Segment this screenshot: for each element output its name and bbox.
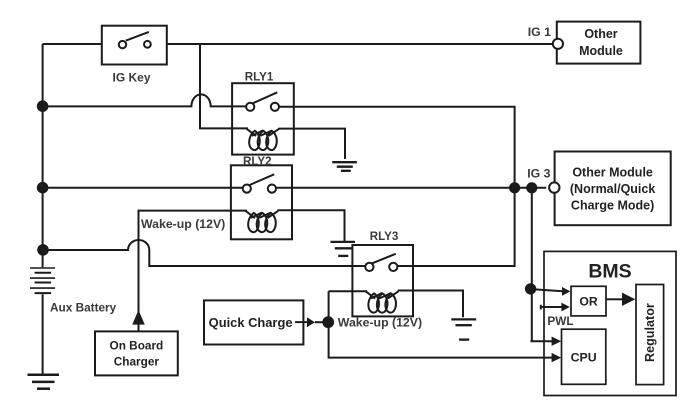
box Regulator — [636, 285, 664, 385]
battery Aux Battery — [30, 268, 55, 293]
arrow up — [132, 310, 145, 325]
node IG 3 — [549, 182, 559, 192]
box Other Module — [557, 22, 641, 64]
ground — [331, 242, 356, 256]
relay RLY1 coil — [247, 129, 280, 150]
wire — [329, 291, 553, 357]
relay RLY2 box — [231, 165, 292, 239]
relay RLY1 contacts — [246, 92, 279, 111]
junction — [38, 183, 48, 193]
junction — [38, 245, 48, 255]
wire — [43, 43, 102, 45]
ground — [451, 319, 476, 339]
box CPU — [562, 329, 606, 384]
svg-text:RLY3: RLY3 — [370, 230, 399, 243]
wire — [606, 298, 622, 300]
node IG 1 — [553, 39, 563, 49]
wire — [315, 321, 324, 323]
relay RLY3 coil — [366, 291, 399, 312]
wire — [279, 107, 515, 188]
ground — [332, 162, 357, 171]
junction — [527, 183, 536, 192]
arrow into OR upper — [562, 287, 570, 296]
relay RLY3 box — [352, 245, 413, 316]
box BMS — [544, 251, 676, 395]
box OR — [571, 286, 606, 316]
wire — [295, 321, 308, 323]
svg-text:Charger: Charger — [114, 354, 160, 368]
wire — [167, 43, 553, 45]
wire — [278, 210, 345, 241]
svg-text:CPU: CPU — [571, 351, 597, 365]
junction — [526, 284, 535, 293]
junction — [510, 183, 519, 192]
wire — [43, 240, 366, 266]
junction — [323, 317, 333, 327]
wire — [42, 294, 44, 375]
ground — [28, 375, 60, 389]
wire — [42, 44, 44, 267]
relay RLY3 contacts — [365, 254, 397, 271]
svg-text:IG 1: IG 1 — [528, 25, 551, 39]
wire — [398, 291, 463, 318]
svg-text:Other Module: Other Module — [572, 165, 653, 179]
arrow into CPU upper — [552, 337, 562, 346]
box Other Module (Normal/Quick Charge Mode) — [555, 152, 671, 226]
wire — [43, 94, 247, 106]
wire — [279, 129, 346, 159]
svg-text:RLY1: RLY1 — [245, 71, 274, 84]
wire — [531, 188, 533, 289]
wire — [329, 290, 368, 292]
junction — [38, 101, 48, 111]
relay RLY1 box — [232, 83, 294, 154]
svg-text:Wake-up (12V): Wake-up (12V) — [338, 315, 422, 329]
svg-text:RLY2: RLY2 — [243, 155, 272, 168]
svg-text:Module: Module — [579, 44, 623, 58]
box On Board Charger — [95, 331, 178, 375]
wire — [276, 187, 547, 189]
svg-text:Wake-up (12V): Wake-up (12V) — [141, 217, 225, 231]
arrow right — [307, 317, 315, 327]
wire — [533, 289, 563, 291]
svg-text:PWL: PWL — [547, 314, 573, 328]
switch IG Key contacts — [119, 32, 151, 48]
arrow into Regulator — [622, 293, 635, 306]
relay RLY2 contacts — [243, 174, 276, 192]
arrow into CPU lower — [552, 353, 562, 362]
arrow into OR lower — [561, 303, 569, 312]
wire — [200, 44, 248, 128]
box Quick Charge — [204, 300, 303, 344]
svg-text:BMS: BMS — [588, 261, 631, 283]
svg-text:IG 3: IG 3 — [527, 167, 550, 181]
svg-text:(Normal/Quick: (Normal/Quick — [570, 182, 655, 196]
wire — [397, 188, 514, 266]
svg-text:OR: OR — [579, 295, 597, 309]
wire — [530, 289, 552, 341]
wire — [139, 211, 248, 332]
svg-text:IG Key: IG Key — [112, 71, 150, 85]
svg-text:Aux Battery: Aux Battery — [50, 300, 117, 314]
svg-text:Charge Mode): Charge Mode) — [571, 198, 654, 212]
svg-text:Other: Other — [584, 27, 617, 41]
svg-text:On Board: On Board — [110, 339, 164, 353]
wire — [43, 187, 243, 189]
switch IG Key box — [102, 26, 167, 65]
svg-text:Regulator: Regulator — [643, 303, 657, 362]
svg-text:Quick Charge: Quick Charge — [209, 315, 293, 330]
wire PWL — [541, 305, 562, 310]
relay RLY2 coil — [246, 211, 279, 232]
